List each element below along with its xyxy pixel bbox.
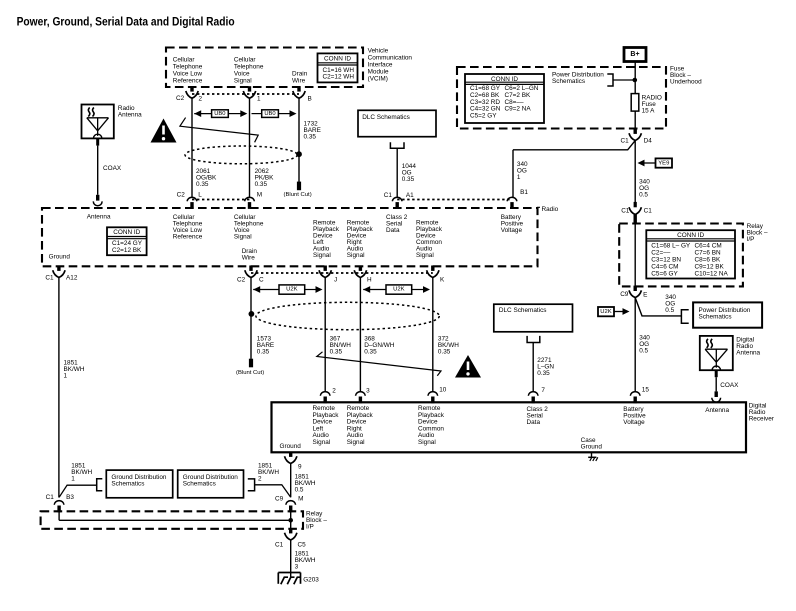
svg-text:0.35: 0.35 bbox=[196, 181, 209, 188]
svg-text:Ground: Ground bbox=[280, 443, 302, 450]
svg-text:Reference: Reference bbox=[173, 77, 203, 84]
digital radio receiver box bbox=[272, 402, 747, 452]
wire 1732 BARE drain bbox=[298, 98, 300, 182]
connector C2 pin 2 at VCIM bbox=[186, 86, 198, 98]
svg-text:1: 1 bbox=[517, 174, 521, 181]
svg-text:0.35: 0.35 bbox=[304, 134, 317, 141]
receiver label Case Ground bbox=[581, 437, 603, 451]
svg-text:C1: C1 bbox=[275, 542, 284, 549]
label pin 2 receiver bbox=[332, 388, 336, 395]
radio pin label Battery Positive Voltage bbox=[501, 214, 524, 234]
svg-text:C1: C1 bbox=[46, 494, 55, 501]
svg-text:Interface: Interface bbox=[368, 61, 393, 68]
radio pin label Remote Playback Device Left Audio Signal bbox=[313, 220, 340, 260]
wire 1851 BK/WH 3 bbox=[290, 540, 292, 578]
connector C1 C1 in-line bbox=[629, 202, 641, 215]
svg-text:Signal: Signal bbox=[347, 252, 365, 259]
svg-text:A12: A12 bbox=[66, 274, 78, 281]
connector M into radio bbox=[245, 197, 255, 209]
wire 1851 BK/WH 0.5 bbox=[290, 464, 292, 498]
UB0 arrow right pair bbox=[252, 110, 297, 118]
label Digital Radio Receiver bbox=[749, 403, 775, 423]
VCIM pin label Drain Wire bbox=[292, 71, 308, 85]
label A1 bbox=[406, 192, 414, 199]
junction dot ground bus bbox=[288, 518, 293, 523]
svg-text:C2: C2 bbox=[176, 95, 185, 102]
svg-text:Power, Ground, Serial Data and: Power, Ground, Serial Data and Digital R… bbox=[17, 15, 235, 29]
warning symbol 2 bbox=[455, 355, 481, 378]
svg-text:B+: B+ bbox=[630, 51, 639, 58]
junction dot on drain wire bbox=[296, 151, 302, 157]
svg-text:C10=12 NA: C10=12 NA bbox=[695, 271, 729, 278]
wire 340 OG 0.5 to receiver bbox=[634, 298, 636, 392]
svg-text:0.35: 0.35 bbox=[255, 181, 268, 188]
svg-text:UB0: UB0 bbox=[214, 111, 225, 117]
label COAX left bbox=[103, 165, 122, 172]
wire ground 1851 left bbox=[58, 278, 60, 498]
svg-text:Signal: Signal bbox=[234, 77, 252, 84]
svg-text:Data: Data bbox=[386, 227, 400, 234]
svg-text:L: L bbox=[198, 192, 202, 199]
label Fuse Block Underhood bbox=[670, 66, 702, 86]
wire through relay block bbox=[634, 215, 637, 287]
svg-text:9: 9 bbox=[298, 464, 302, 471]
radio pin label Remote Playback Device Right Audio Signal bbox=[347, 220, 374, 260]
svg-text:CONN ID: CONN ID bbox=[113, 229, 140, 236]
dotted row radio bottom bbox=[251, 272, 433, 274]
svg-text:7: 7 bbox=[541, 387, 545, 394]
label G203 bbox=[303, 576, 319, 583]
label C9 at M bbox=[275, 495, 284, 502]
svg-text:C3=12 BN: C3=12 BN bbox=[651, 257, 681, 264]
label C9 at E bbox=[620, 291, 629, 298]
svg-text:Signal: Signal bbox=[234, 234, 252, 241]
svg-text:0.35: 0.35 bbox=[364, 348, 377, 355]
svg-text:Underhood: Underhood bbox=[670, 79, 702, 86]
coax wire to receiver bbox=[712, 370, 721, 402]
svg-text:C2=12 WH: C2=12 WH bbox=[323, 74, 355, 81]
svg-text:C9: C9 bbox=[620, 291, 629, 298]
label 1732 BARE 0.35 bbox=[304, 121, 321, 141]
label Relay Block IP right bbox=[747, 223, 768, 243]
leader line across telephone wires bbox=[180, 118, 258, 143]
blunt cut terminal of 1573 bbox=[236, 359, 264, 376]
label 367 BN/WH 0.35 bbox=[330, 335, 352, 355]
radio pin label Ground bbox=[49, 253, 71, 260]
receiver pin label Antenna bbox=[705, 407, 729, 414]
fuse RADIO 15A bbox=[631, 94, 662, 115]
svg-text:C7=6 BN: C7=6 BN bbox=[695, 250, 721, 257]
svg-text:C1=68 L– GY: C1=68 L– GY bbox=[651, 243, 691, 250]
label COAX right bbox=[720, 382, 739, 389]
svg-text:Voltage: Voltage bbox=[623, 419, 645, 426]
connector pin 3 into receiver bbox=[356, 392, 366, 404]
svg-text:0.5: 0.5 bbox=[295, 487, 304, 494]
label C2 at C bbox=[237, 277, 246, 284]
label E bbox=[643, 292, 647, 299]
svg-text:Data: Data bbox=[527, 419, 541, 426]
wire 1044 OG bbox=[396, 148, 398, 197]
label 1851 BK/WH 1 upper bbox=[64, 359, 85, 379]
blunt cut terminal of 1732 bbox=[284, 182, 312, 198]
svg-text:C6=4 CM: C6=4 CM bbox=[695, 243, 722, 250]
label C1 at C5 bbox=[275, 542, 284, 549]
label 1851 BK/WH 3 bbox=[295, 551, 316, 571]
svg-text:(VCIM): (VCIM) bbox=[368, 75, 388, 82]
label 1044 OG 0.35 bbox=[402, 163, 417, 183]
connector C2 C out of radio bbox=[245, 266, 257, 278]
junction dot on 1573 bbox=[249, 311, 255, 317]
label pin 7 bbox=[541, 387, 545, 394]
label 372 BK/WH 0.35 bbox=[438, 335, 459, 355]
svg-text:G203: G203 bbox=[303, 576, 319, 583]
svg-text:2: 2 bbox=[332, 388, 336, 395]
shield twisted-pair ellipse upper bbox=[185, 146, 297, 164]
svg-text:DLC Schematics: DLC Schematics bbox=[499, 307, 547, 314]
radio pin label Cellular Telephone Voice Low Reference bbox=[173, 214, 203, 241]
svg-text:1: 1 bbox=[257, 96, 261, 103]
relay block IP bottom dashed box bbox=[41, 511, 303, 529]
label J bbox=[334, 277, 337, 284]
label pin 2 bbox=[199, 96, 203, 103]
svg-text:DLC Schematics: DLC Schematics bbox=[362, 114, 410, 121]
label D4 bbox=[644, 138, 653, 145]
connector pin 15 into receiver bbox=[630, 392, 640, 404]
svg-text:(Blunt Cut): (Blunt Cut) bbox=[236, 370, 264, 376]
box Ground Distribution Schematics 2 bbox=[178, 470, 244, 498]
box DLC Schematics lower bbox=[494, 304, 573, 332]
connector pin B at VCIM bbox=[293, 86, 305, 98]
svg-text:Antenna: Antenna bbox=[87, 214, 111, 221]
box DLC Schematics upper bbox=[358, 110, 436, 136]
svg-text:0.5: 0.5 bbox=[665, 307, 674, 314]
label C bbox=[259, 277, 264, 284]
svg-text:C: C bbox=[259, 277, 264, 284]
svg-text:3: 3 bbox=[295, 564, 299, 571]
svg-text:Wire: Wire bbox=[292, 78, 306, 85]
label M bbox=[257, 192, 262, 199]
svg-text:U2K: U2K bbox=[393, 287, 405, 293]
svg-text:Antenna: Antenna bbox=[736, 349, 760, 356]
svg-text:Module: Module bbox=[368, 68, 389, 75]
svg-text:C2: C2 bbox=[177, 192, 186, 199]
label pin B bbox=[308, 96, 312, 103]
svg-text:C5=2 GY: C5=2 GY bbox=[470, 113, 497, 120]
svg-text:C2=12 BK: C2=12 BK bbox=[112, 247, 142, 254]
svg-text:UB0: UB0 bbox=[264, 111, 275, 117]
connector B1 into radio bbox=[507, 197, 517, 209]
svg-text:0.35: 0.35 bbox=[402, 176, 415, 183]
svg-text:M: M bbox=[257, 192, 262, 199]
svg-text:M: M bbox=[298, 495, 303, 502]
receiver pin label Remote Playback Device Left Audio Signal bbox=[313, 405, 340, 446]
svg-text:0.35: 0.35 bbox=[330, 348, 343, 355]
svg-text:B1: B1 bbox=[520, 189, 528, 196]
label C5 bbox=[298, 542, 307, 549]
wire 2061 OG/BK bbox=[191, 98, 193, 197]
svg-text:Signal: Signal bbox=[418, 439, 436, 446]
svg-text:C5=6 GY: C5=6 GY bbox=[651, 271, 678, 278]
wire 340 OG to radio branch bbox=[513, 141, 635, 197]
svg-text:Ground: Ground bbox=[49, 253, 71, 260]
svg-text:Signal: Signal bbox=[416, 252, 434, 259]
connector pin 10 into receiver bbox=[428, 392, 438, 404]
radio pin label Cellular Telephone Voice Signal bbox=[234, 214, 264, 241]
svg-text:I/P: I/P bbox=[747, 236, 755, 243]
svg-text:1: 1 bbox=[64, 372, 68, 379]
wire 367 BN/WH bbox=[324, 278, 326, 392]
svg-text:C1: C1 bbox=[644, 208, 653, 215]
label 368 D-GN/WH 0.35 bbox=[364, 335, 395, 355]
ground G203 symbol bbox=[278, 573, 300, 585]
wire B+ to fuse bbox=[634, 62, 636, 94]
label 340 OG 0.5 upper bbox=[639, 179, 650, 199]
svg-text:C5: C5 bbox=[298, 542, 307, 549]
label M at relay bbox=[298, 495, 303, 502]
label A12 bbox=[66, 274, 78, 281]
branch to power distribution schematics bbox=[635, 298, 689, 324]
label Radio Antenna bbox=[118, 105, 142, 119]
label C1 left of inline bbox=[621, 208, 630, 215]
svg-text:C1: C1 bbox=[45, 274, 54, 281]
svg-text:COAX: COAX bbox=[720, 382, 739, 389]
relay block CONN ID table bbox=[646, 230, 735, 278]
connector H out of radio bbox=[354, 266, 366, 278]
label Power Distribution Schematics top bbox=[552, 72, 604, 86]
svg-text:(Blunt Cut): (Blunt Cut) bbox=[284, 192, 312, 198]
label VCIM bbox=[368, 47, 413, 82]
title bbox=[17, 15, 235, 29]
svg-text:Receiver: Receiver bbox=[749, 416, 775, 423]
wire 1573 BARE drain lower bbox=[250, 278, 252, 359]
VCIM pin label Cellular Telephone Voice Low Reference bbox=[173, 57, 203, 85]
svg-text:15 A: 15 A bbox=[642, 107, 656, 114]
label 2271 L-GN 0.35 bbox=[537, 357, 554, 377]
svg-text:0.35: 0.35 bbox=[537, 370, 550, 377]
label 1851 BK/WH 0.5 bbox=[295, 474, 316, 494]
connector C9 M into relay block bbox=[286, 501, 296, 513]
svg-text:C1: C1 bbox=[384, 192, 393, 199]
radio pin label Remote Playback Device Common Audio Signal bbox=[416, 220, 443, 260]
label 2061 OG/BK 0.35 bbox=[196, 168, 217, 188]
VCIM CONN ID table bbox=[318, 53, 358, 82]
svg-text:C4=6 CM: C4=6 CM bbox=[651, 264, 678, 271]
label Radio bbox=[538, 206, 559, 213]
branch bracket under DLC lower bbox=[527, 336, 540, 343]
svg-text:J: J bbox=[334, 277, 337, 284]
digital radio antenna box bbox=[700, 336, 733, 370]
bracket to ground distribution 1 bbox=[59, 479, 102, 498]
svg-text:B3: B3 bbox=[66, 494, 74, 501]
radio CONN ID table bbox=[107, 227, 147, 255]
svg-text:Antenna: Antenna bbox=[705, 407, 729, 414]
svg-text:1: 1 bbox=[71, 476, 75, 483]
svg-text:Signal: Signal bbox=[313, 252, 331, 259]
label pin 9 bbox=[298, 464, 302, 471]
svg-text:E: E bbox=[643, 292, 647, 299]
U2K arrow pair right bbox=[363, 285, 430, 294]
label C1 at D4 bbox=[621, 138, 630, 145]
wire 2062 PK/BK bbox=[249, 98, 251, 197]
label H bbox=[367, 277, 372, 284]
svg-text:Schematics: Schematics bbox=[699, 314, 732, 321]
junction dot at fuse feed bbox=[633, 78, 638, 83]
branch bracket under DLC box bbox=[390, 142, 404, 148]
connector C9 E bbox=[629, 286, 641, 298]
svg-text:Schematics: Schematics bbox=[552, 78, 585, 85]
YE9 tag bbox=[638, 158, 673, 167]
radio pin label Antenna bbox=[87, 214, 111, 221]
radio antenna box bbox=[82, 105, 114, 139]
svg-text:3: 3 bbox=[366, 388, 370, 395]
receiver pin label Ground bbox=[280, 443, 302, 450]
svg-text:Vehicle: Vehicle bbox=[368, 47, 389, 54]
leader line across playback wires bbox=[317, 352, 441, 376]
svg-text:C9=2 NA: C9=2 NA bbox=[505, 106, 532, 113]
label 2062 PK/BK 0.35 bbox=[255, 168, 275, 188]
label 340 OG 0.5 lower bbox=[639, 334, 650, 354]
connector C1 B3 into relay block bbox=[54, 501, 64, 513]
svg-text:COAX: COAX bbox=[103, 165, 122, 172]
connector C2 L into radio bbox=[187, 197, 197, 209]
svg-text:C8=6 BK: C8=6 BK bbox=[695, 257, 721, 264]
relay block IP dashed box bbox=[619, 224, 743, 287]
svg-text:Antenna: Antenna bbox=[118, 111, 142, 118]
label pin 10 receiver bbox=[439, 386, 447, 393]
svg-text:CONN ID: CONN ID bbox=[677, 232, 704, 239]
svg-text:15: 15 bbox=[642, 386, 650, 393]
label 1851 BK/WH 1 lower bbox=[71, 463, 92, 483]
connector pin 1 at VCIM bbox=[243, 86, 255, 98]
svg-text:Radio: Radio bbox=[542, 206, 559, 213]
label C2 at L bbox=[177, 192, 186, 199]
label C1 at A1 bbox=[384, 192, 393, 199]
label C2 bbox=[176, 95, 185, 102]
svg-text:A1: A1 bbox=[406, 192, 414, 199]
label pin 3 receiver bbox=[366, 388, 370, 395]
svg-text:D4: D4 bbox=[644, 138, 653, 145]
svg-text:Schematics: Schematics bbox=[111, 481, 144, 488]
box Power Distribution Schematics right bbox=[693, 302, 762, 327]
svg-text:0.35: 0.35 bbox=[438, 348, 451, 355]
connector J out of radio bbox=[319, 266, 331, 278]
label C1 at B3 bbox=[46, 494, 55, 501]
receiver pin label Battery Positive Voltage bbox=[623, 406, 646, 426]
svg-text:Ground: Ground bbox=[581, 444, 603, 451]
label K bbox=[440, 277, 445, 284]
svg-text:Signal: Signal bbox=[313, 439, 331, 446]
connector K out of radio bbox=[427, 266, 439, 278]
connector A1 into radio bbox=[392, 197, 402, 209]
label Relay Block IP bottom bbox=[306, 511, 327, 531]
label 340 OG 1 bbox=[517, 161, 528, 181]
svg-text:C2=––: C2=–– bbox=[651, 250, 670, 257]
svg-text:U2K: U2K bbox=[286, 287, 298, 293]
UB0 arrow left pair bbox=[194, 110, 247, 118]
radio pin label Class 2 Serial Data bbox=[386, 214, 408, 234]
svg-text:Schematics: Schematics bbox=[183, 481, 216, 488]
label C1 right of inline bbox=[644, 208, 653, 215]
connector pin 2 into receiver bbox=[320, 392, 330, 404]
bracket to ground distribution 2 bbox=[248, 479, 291, 497]
label 1851 BK/WH 2 bbox=[258, 462, 279, 482]
receiver pin label Remote Playback Device Right Audio Signal bbox=[347, 405, 374, 446]
svg-text:0.5: 0.5 bbox=[639, 347, 648, 354]
fuse block underhood dashed box bbox=[457, 67, 666, 129]
wire 372 BK/WH bbox=[432, 278, 434, 392]
svg-text:Reference: Reference bbox=[173, 234, 203, 241]
receiver pin label Remote Playback Device Common Audio Signal bbox=[418, 405, 445, 446]
coax wire to radio bbox=[93, 138, 102, 205]
dotted row A1 to B1 bbox=[397, 199, 512, 201]
svg-text:I/P: I/P bbox=[306, 524, 314, 531]
svg-text:C2: C2 bbox=[237, 277, 246, 284]
svg-text:YE9: YE9 bbox=[658, 160, 669, 166]
label pin 1 bbox=[257, 96, 261, 103]
connector C1 C5 out of relay block bbox=[285, 528, 297, 540]
box Ground Distribution Schematics 1 bbox=[106, 470, 172, 498]
svg-text:10: 10 bbox=[439, 386, 447, 393]
svg-text:C9=12 BK: C9=12 BK bbox=[695, 264, 725, 271]
svg-text:U2K: U2K bbox=[600, 309, 612, 315]
label B1 bbox=[520, 189, 528, 196]
svg-text:Communication: Communication bbox=[368, 54, 413, 61]
connector pin 7 into receiver bbox=[528, 392, 538, 404]
svg-text:CONN ID: CONN ID bbox=[324, 55, 351, 62]
svg-text:B: B bbox=[308, 96, 312, 103]
label B3 bbox=[66, 494, 74, 501]
battery feed B+ box bbox=[624, 48, 646, 62]
svg-text:2: 2 bbox=[258, 475, 262, 482]
radio dashed box bbox=[42, 208, 538, 266]
warning symbol 1 bbox=[151, 119, 177, 143]
svg-text:Wire: Wire bbox=[242, 255, 256, 262]
shield twisted-pair ellipse lower bbox=[256, 302, 439, 329]
svg-text:K: K bbox=[440, 277, 445, 284]
svg-text:C1: C1 bbox=[621, 138, 630, 145]
svg-text:2: 2 bbox=[199, 96, 203, 103]
fuse block CONN ID table bbox=[465, 74, 544, 123]
VCIM pin label Cellular Telephone Voice Signal bbox=[234, 57, 264, 85]
label L bbox=[198, 192, 202, 199]
connector C1 A12 out of radio bbox=[53, 266, 65, 278]
svg-text:0.35: 0.35 bbox=[257, 348, 270, 355]
label pin 15 bbox=[642, 386, 650, 393]
receiver pin label Class 2 Serial Data bbox=[527, 406, 549, 426]
connector antenna into radio dotted row bbox=[192, 199, 250, 201]
connector C1 D4 bbox=[629, 129, 641, 141]
svg-text:Signal: Signal bbox=[347, 439, 365, 446]
bracket to power distribution bbox=[607, 74, 634, 86]
connector ground out of receiver bbox=[285, 452, 297, 464]
wire 340 OG 0.5 upper bbox=[634, 141, 636, 203]
wire 2271 L-GN bbox=[532, 343, 534, 392]
wire 368 D-GN/WH bbox=[359, 278, 361, 392]
in-line connector dotted row under VCIM bbox=[192, 93, 299, 95]
label 1573 BARE 0.35 bbox=[257, 335, 274, 355]
wire fuse to C1 D4 bbox=[634, 111, 636, 129]
svg-text:0.5: 0.5 bbox=[639, 192, 648, 199]
module VCIM dashed box bbox=[166, 48, 363, 88]
label 340 OG 0.5 at E bbox=[665, 294, 676, 314]
svg-text:C1: C1 bbox=[621, 208, 630, 215]
label C1 at A12 bbox=[45, 274, 54, 281]
svg-text:H: H bbox=[367, 277, 372, 284]
U2K arrow pair left bbox=[253, 285, 322, 294]
svg-text:C9: C9 bbox=[275, 495, 284, 502]
case ground symbol bbox=[588, 453, 598, 462]
ground bus inside relay block bbox=[59, 512, 291, 529]
